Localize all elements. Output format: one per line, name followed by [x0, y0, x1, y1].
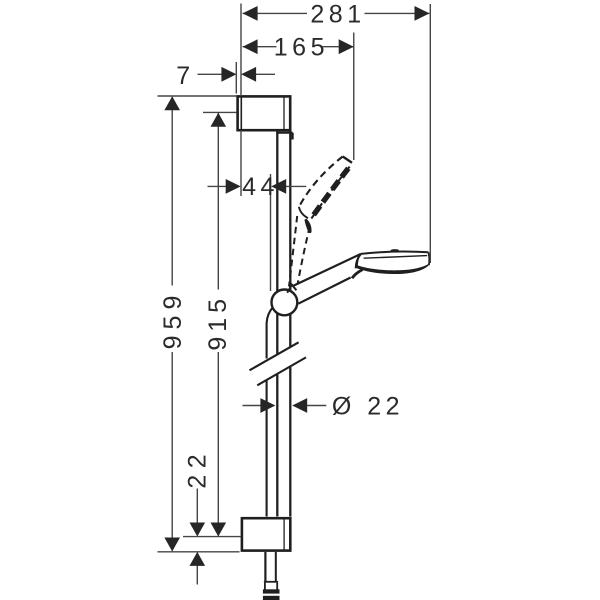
- bottom bracket inner line: [283, 518, 285, 550]
- arrow 7 left pointing right: [221, 67, 236, 82]
- dim line diameter 22: [243, 405, 327, 407]
- joint dark wedge under head: [351, 269, 364, 279]
- head top button: [391, 249, 400, 252]
- svg-text:165: 165: [274, 34, 329, 62]
- extension line 915/22 bottom: [183, 536, 241, 538]
- arrow 165 right: [339, 39, 354, 54]
- head left cap inner: [357, 256, 359, 268]
- head inner top line: [364, 256, 428, 259]
- dim line 44: [208, 185, 307, 187]
- extension line main left vertical (wall line): [240, 4, 242, 197]
- hose (solid, hanging from handset): [267, 307, 273, 516]
- dim line 165: [243, 46, 354, 48]
- hose connector dark band 1: [263, 589, 280, 593]
- svg-text:22: 22: [184, 448, 212, 489]
- hose below foot: right line: [275, 552, 277, 581]
- dim line 7: [198, 73, 276, 75]
- handle bottom line: [298, 278, 350, 304]
- arrow 44 right pointing left: [271, 179, 286, 194]
- dashed handset upper position: head left edge: [299, 157, 343, 207]
- arrowheads: [164, 6, 429, 566]
- svg-text:Ø 22: Ø 22: [332, 393, 404, 421]
- hose nut shoulder: [264, 581, 278, 583]
- dashed handle right line: [298, 227, 310, 284]
- dim line 959: [171, 97, 173, 551]
- rail right edge: [289, 132, 291, 517]
- dashed head spray face thick band: [311, 168, 348, 218]
- dashed head apex cap: [343, 157, 352, 163]
- dim line 281: [243, 12, 430, 14]
- extension line 7 left: [235, 62, 237, 94]
- dashed head face inner line: [311, 167, 350, 220]
- arrow 165 left: [243, 39, 258, 54]
- handset head top edge: [361, 252, 429, 254]
- rail left edge (wall bar): [276, 132, 278, 517]
- arrow 22 up: [190, 552, 206, 566]
- hose below foot: left line: [264, 552, 266, 581]
- dashed head elbow cap: [299, 207, 308, 218]
- arrow 915 down: [211, 523, 227, 537]
- wall bracket top (white plate): [238, 96, 291, 130]
- arrow 7 right pointing left: [241, 67, 256, 82]
- arrow dia22 pointing right: [260, 398, 275, 413]
- arrow 22 down: [190, 523, 206, 537]
- svg-text:7: 7: [176, 62, 194, 90]
- head right end: [427, 252, 430, 265]
- handle top line: [294, 254, 361, 286]
- extension line 165 (dashed head apex): [353, 33, 355, 161]
- dashed handle left line: [289, 216, 297, 287]
- svg-text:915: 915: [204, 294, 232, 351]
- arrow 44 left pointing right: [226, 179, 241, 194]
- hose connector dark band 2: [263, 596, 280, 600]
- extension line 959 top: [158, 95, 237, 97]
- bottom bracket (rail foot): [242, 518, 290, 550]
- dim line 915: [217, 113, 219, 536]
- hose nut sides: [265, 583, 277, 590]
- extension line right (head outer): [429, 4, 431, 263]
- head left cap: [356, 254, 361, 268]
- arrow 959 down: [164, 538, 180, 552]
- slider tab (cone to handle): [287, 285, 296, 293]
- extension line 959/22 bottom: [158, 551, 240, 553]
- arrow 959 up: [164, 96, 180, 110]
- dashed head joint dark blob: [305, 219, 312, 233]
- extension line 44 right: [270, 174, 272, 291]
- dimension texts: [159, 0, 404, 488]
- head bottom spray face (dark crescent): [356, 264, 429, 274]
- dim line 22 left: [196, 489, 198, 585]
- bracket top inner line left: [240, 96, 242, 130]
- slider ball: [272, 290, 298, 316]
- arrow 281 right: [415, 6, 430, 21]
- bracket top inner line right: [283, 96, 285, 130]
- svg-text:44: 44: [242, 173, 279, 201]
- arrow 915 up: [211, 113, 227, 127]
- svg-text:959: 959: [159, 290, 187, 350]
- svg-text:281: 281: [310, 0, 365, 28]
- extension line 915 top: [203, 111, 237, 113]
- break symbol (rail interrupted): [251, 343, 306, 385]
- arrow 281 left: [243, 6, 258, 21]
- bracket collar below: [276, 133, 292, 140]
- arrow dia22 pointing left: [292, 398, 307, 413]
